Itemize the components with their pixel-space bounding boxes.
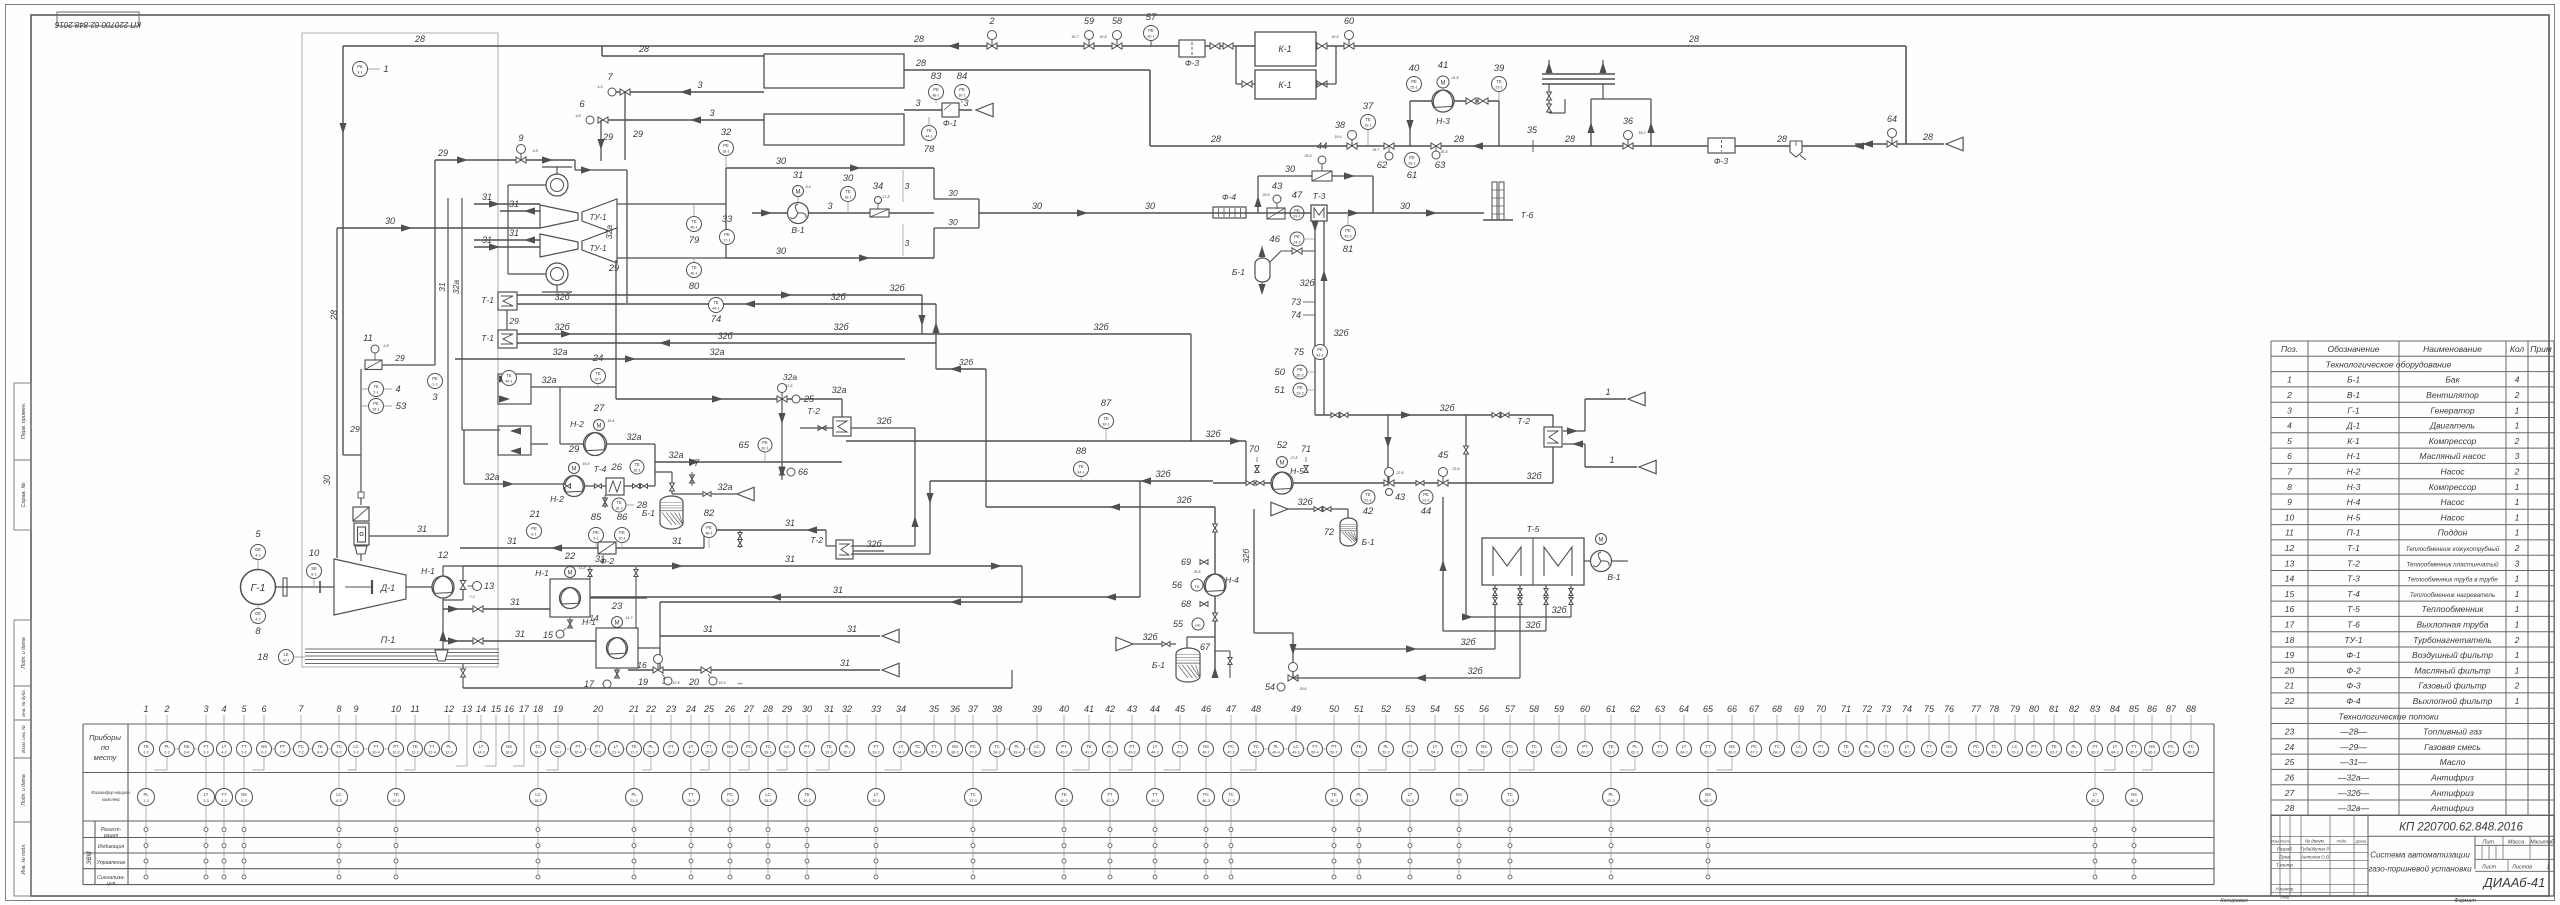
svg-text:4-2: 4-2 [221,751,227,755]
svg-text:5-3: 5-3 [241,799,247,803]
instrument 51 [1274,383,1315,397]
svg-text:73: 73 [1291,297,1301,307]
svg-text:28: 28 [414,34,425,44]
svg-text:35: 35 [929,704,940,714]
svg-text:NS: NS [1705,792,1711,797]
svg-text:70: 70 [1249,444,1259,454]
svg-text:10: 10 [391,704,401,714]
svg-text:73-2: 73-2 [1882,751,1890,755]
svg-text:31: 31 [703,624,713,634]
svg-text:24-2: 24-2 [1293,241,1301,245]
svg-text:25: 25 [803,394,815,404]
svg-text:54: 54 [1430,704,1440,714]
svg-text:29-8: 29-8 [1192,570,1200,574]
svg-text:19: 19 [638,677,648,687]
svg-text:25: 25 [2284,757,2295,767]
svg-text:72: 72 [1862,704,1872,714]
svg-text:Ф-1: Ф-1 [2346,650,2361,660]
svg-text:22: 22 [645,704,656,714]
svg-text:TC: TC [1531,744,1537,749]
gas filter F-3 second [1708,138,1735,166]
svg-text:1-2: 1-2 [143,751,149,755]
svg-text:16: 16 [2285,604,2295,614]
svg-text:45: 45 [1438,450,1449,461]
svg-text:78: 78 [924,144,935,155]
svg-text:Масло: Масло [2440,757,2466,767]
oil pump N-1 main [406,550,494,650]
svg-text:87: 87 [2166,704,2177,714]
svg-text:32а: 32а [541,375,556,385]
valve 60 [1331,16,1354,49]
svg-text:Т-2: Т-2 [1517,416,1530,426]
svg-text:74: 74 [711,314,722,325]
svg-text:84: 84 [2110,704,2120,714]
svg-text:PE: PE [1297,385,1303,390]
wire 32b long top [0,0,1,1]
svg-text:81-2: 81-2 [2050,751,2058,755]
svg-text:3: 3 [915,98,920,108]
svg-text:7-2: 7-2 [298,751,304,755]
svg-text:TC: TC [535,744,541,749]
svg-text:31: 31 [847,624,857,634]
wire 29 mixer line [435,148,627,365]
svg-text:LT: LT [222,744,227,749]
flag 1 lower [1563,440,1656,473]
svg-text:48-1: 48-1 [932,94,940,98]
svg-text:Утв.: Утв. [2280,894,2290,899]
svg-text:К-1: К-1 [1278,44,1291,54]
cooler box upper [498,374,616,404]
svg-text:17-8: 17-8 [882,195,889,199]
svg-text:30: 30 [802,704,812,714]
svg-text:Насос: Насос [2440,512,2465,522]
svg-text:Н-1: Н-1 [421,566,435,576]
svg-text:62-2: 62-2 [1631,751,1639,755]
svg-text:12-8: 12-8 [785,384,792,388]
svg-text:14: 14 [2285,574,2295,584]
svg-text:8: 8 [336,704,341,714]
svg-text:PT: PT [280,744,286,749]
exhaust filter F-4 [1213,192,1246,218]
svg-text:Ф-1: Ф-1 [943,118,958,128]
svg-text:газо-поршневой установки: газо-поршневой установки [2368,864,2472,873]
svg-text:TE: TE [317,744,323,749]
svg-text:Компрессор: Компрессор [2429,482,2477,492]
svg-text:7: 7 [607,72,613,83]
svg-text:1: 1 [2515,512,2520,522]
svg-text:LC: LC [765,792,770,797]
svg-text:56: 56 [1479,704,1489,714]
svg-text:TE: TE [1103,416,1109,421]
instrument 33 [720,214,735,245]
svg-text:FT: FT [203,744,209,749]
svg-text:TT: TT [931,744,937,749]
valve 36 [1623,116,1646,149]
svg-text:1: 1 [2515,620,2520,630]
svg-text:Ф-3: Ф-3 [2346,681,2361,691]
svg-text:Инв. № подл.: Инв. № подл. [21,843,27,874]
svg-text:TT: TT [706,744,712,749]
svg-text:FT: FT [373,744,379,749]
left margin box Perv primen [14,383,31,460]
svg-text:3: 3 [709,108,714,118]
valve 43b [1384,468,1405,503]
pan drain line [461,664,1012,689]
svg-text:КП 220700.62.848.2016: КП 220700.62.848.2016 [2399,821,2523,833]
svg-text:32б: 32б [1299,278,1315,288]
svg-text:19: 19 [553,704,563,714]
svg-text:1: 1 [1609,455,1614,465]
svg-text:FT: FT [1107,792,1113,797]
svg-text:NS: NS [2131,792,2137,797]
svg-text:TE: TE [1194,584,1199,589]
svg-text:32а: 32а [831,385,846,395]
svg-text:22-1: 22-1 [1364,499,1372,503]
svg-text:PE: PE [1345,228,1351,233]
svg-text:PE: PE [619,530,625,535]
svg-text:4-8: 4-8 [575,114,580,118]
svg-text:PL: PL [2071,744,2077,749]
svg-text:44-3: 44-3 [1151,799,1159,803]
wire 28 top main [343,34,1906,144]
strainer after F-4 [1267,208,1285,219]
svg-text:4: 4 [2515,375,2520,385]
svg-text:PC: PC [2168,744,2174,749]
svg-text:32а: 32а [451,280,461,294]
svg-text:ТУ-1: ТУ-1 [589,244,606,253]
left margin box Inv No dubl [14,686,31,720]
wire 28 left vertical [329,46,361,455]
instrument 86 [615,512,630,548]
K-1 piping and valves [1210,43,1336,87]
svg-text:87-2: 87-2 [2167,751,2175,755]
svg-text:PE: PE [762,440,768,445]
svg-text:37: 37 [1363,101,1374,112]
svg-text:18-3: 18-3 [534,799,542,803]
svg-text:TE: TE [826,744,832,749]
svg-text:22: 22 [564,551,576,562]
svg-text:Обозначение: Обозначение [2327,344,2379,354]
svg-text:53: 53 [396,401,407,412]
svg-text:Справ. №: Справ. № [21,482,27,507]
svg-text:Наименование: Наименование [2423,344,2482,354]
svg-text:30: 30 [385,216,395,226]
svg-text:PE: PE [959,87,965,92]
instrument 50 [1274,365,1315,379]
svg-text:43: 43 [1127,704,1137,714]
svg-text:69: 69 [1794,704,1804,714]
instrument 3 [428,374,443,404]
title block stamp [2271,815,2554,899]
svg-text:15: 15 [2285,589,2295,599]
svg-text:32б: 32б [959,357,974,367]
pump riser valves [588,530,742,628]
svg-text:Масса: Масса [2508,839,2524,845]
svg-text:LT: LT [899,744,904,749]
svg-text:43-2: 43-2 [1128,751,1136,755]
svg-text:86: 86 [2147,704,2157,714]
instrument 44b [1419,490,1433,517]
svg-text:65: 65 [738,440,749,451]
svg-text:51: 51 [1354,704,1364,714]
svg-text:2: 2 [2514,436,2520,446]
svg-text:15: 15 [543,630,554,640]
compressor K-1 upper [1255,32,1316,66]
instrument 18 [257,650,305,665]
svg-text:Поз.: Поз. [2281,344,2298,354]
svg-text:Масляный фильтр: Масляный фильтр [2414,665,2491,675]
svg-text:34: 34 [873,181,884,192]
svg-text:TE: TE [143,744,149,749]
svg-text:46-3: 46-3 [1202,799,1210,803]
svg-text:4: 4 [395,384,400,395]
svg-text:83-2: 83-2 [2091,751,2099,755]
svg-text:Т-1: Т-1 [481,333,494,343]
svg-text:52-2: 52-2 [1382,751,1390,755]
valve 20 [688,667,744,688]
svg-text:53: 53 [1405,704,1415,714]
wire 31 long middle [463,554,1022,636]
wire 29 risers [597,46,643,303]
svg-text:11: 11 [363,333,373,344]
heat exchanger T-1 first [481,292,517,310]
svg-text:24-3: 24-3 [687,799,695,803]
svg-text:Ф-4: Ф-4 [2346,696,2361,706]
gas buffer B-1 top [1232,246,1315,295]
svg-text:—29—: —29— [2339,742,2367,752]
heat exchanger T-2 second [810,535,884,559]
svg-text:PE: PE [373,401,379,406]
svg-text:51-2: 51-2 [1355,751,1363,755]
svg-text:34-2: 34-2 [897,751,905,755]
svg-text:59: 59 [1554,704,1564,714]
svg-text:61: 61 [1606,704,1616,714]
wire 32a top line [616,260,847,462]
svg-text:PE: PE [1148,28,1154,33]
instrument 21 [527,509,542,539]
svg-text:28: 28 [2284,803,2295,813]
svg-text:TC: TC [915,744,921,749]
svg-text:6: 6 [261,704,266,714]
svg-text:26-1: 26-1 [1408,162,1416,166]
svg-text:Антифриз: Антифриз [2430,803,2474,813]
svg-text:18-1: 18-1 [722,150,730,154]
svg-text:30: 30 [1145,201,1155,211]
svg-text:11-2: 11-2 [411,751,418,755]
condensate pot [1790,141,1806,160]
svg-text:PT: PT [1331,744,1337,749]
svg-text:48-1: 48-1 [705,532,713,536]
svg-text:PE: PE [1423,492,1429,497]
valve 59 [1071,16,1094,49]
svg-text:Поддон: Поддон [2438,528,2468,538]
heater T-4 [594,464,655,508]
svg-text:PE: PE [432,376,438,381]
svg-text:Ф-3: Ф-3 [1714,156,1729,166]
svg-text:28: 28 [1564,134,1575,144]
svg-text:66-2: 66-2 [1728,751,1736,755]
svg-text:28: 28 [329,310,339,321]
svg-text:комплекс: комплекс [102,797,121,802]
svg-text:SE: SE [311,566,317,571]
svg-text:12: 12 [444,704,454,714]
svg-text:79-2: 79-2 [2011,751,2019,755]
svg-text:—32а—: —32а— [2337,773,2370,783]
svg-text:1: 1 [2515,482,2520,492]
svg-text:Прим: Прим [2530,344,2552,354]
svg-text:Ф-2: Ф-2 [2346,665,2361,675]
svg-text:Теплообменник пластинчатый: Теплообменник пластинчатый [2406,561,2499,568]
instrument 4 [361,382,401,397]
svg-text:83: 83 [931,71,942,82]
svg-text:74: 74 [1902,704,1912,714]
svg-text:30-1: 30-1 [958,94,966,98]
svg-text:32а: 32а [604,225,614,239]
svg-text:PC: PC [1507,744,1513,749]
svg-text:13: 13 [2285,558,2295,568]
svg-text:50-2: 50-2 [1330,751,1338,755]
svg-text:49-4: 49-4 [1272,751,1280,755]
svg-text:4-3: 4-3 [221,799,227,803]
svg-text:72: 72 [1324,527,1334,537]
svg-text:42-2: 42-2 [1106,751,1114,755]
svg-text:28: 28 [1776,134,1787,144]
svg-text:33-3: 33-3 [872,799,880,803]
wire 30 to stack [1160,201,1484,217]
svg-text:4: 4 [221,704,226,714]
svg-text:Антифриз: Антифриз [2430,788,2474,798]
svg-text:5-8: 5-8 [532,149,537,153]
wire 31 return middle [590,481,1140,601]
svg-text:71: 71 [1301,444,1311,454]
svg-text:57-3: 57-3 [1506,799,1514,803]
svg-text:PL: PL [1383,744,1389,749]
svg-text:88: 88 [2186,704,2196,714]
svg-text:63: 63 [1435,160,1446,171]
package boundary [302,33,498,667]
svg-text:PE: PE [1294,208,1300,213]
svg-text:67: 67 [1200,642,1211,652]
svg-text:22: 22 [2284,696,2295,706]
wire 28 return line [1150,70,1864,152]
svg-text:TC: TC [1991,744,1997,749]
svg-text:TT: TT [1177,744,1183,749]
svg-text:82: 82 [704,508,715,519]
svg-text:17-1: 17-1 [723,239,731,243]
svg-text:16-1: 16-1 [633,469,641,473]
svg-text:27: 27 [2284,788,2295,798]
svg-text:48: 48 [1251,704,1261,714]
svg-text:20: 20 [688,677,699,687]
svg-text:28-1: 28-1 [372,408,380,412]
svg-text:21-3: 21-3 [630,799,638,803]
svg-text:81: 81 [2049,704,2059,714]
svg-text:LC: LC [353,744,358,749]
svg-text:50: 50 [1329,704,1339,714]
svg-text:PE: PE [1317,347,1323,352]
svg-text:FT: FT [575,744,581,749]
svg-text:3-3: 3-3 [203,799,209,803]
svg-text:M: M [572,467,577,473]
svg-text:TE: TE [691,265,697,270]
svg-text:PC: PC [970,744,976,749]
svg-text:29: 29 [508,316,519,326]
svg-text:Антонов О.В: Антонов О.В [2300,854,2329,859]
instrument strip table [83,724,2214,887]
svg-text:NS: NS [261,744,267,749]
svg-text:Т-2: Т-2 [2347,558,2360,568]
svg-text:49-2: 49-2 [1292,751,1300,755]
svg-text:LT: LT [1905,744,1910,749]
svg-text:26-8: 26-8 [1439,150,1447,154]
svg-text:П-1: П-1 [2347,528,2361,538]
svg-text:34-1: 34-1 [1077,471,1085,475]
oil filter F-2 [598,542,616,566]
air line 3 upper [612,80,764,96]
svg-text:13: 13 [462,704,472,714]
svg-text:55: 55 [1454,704,1465,714]
svg-text:32а: 32а [484,472,499,482]
svg-text:PT: PT [1582,744,1588,749]
svg-text:74: 74 [1291,310,1301,320]
damper 34 [870,181,934,217]
svg-text:31: 31 [482,192,492,202]
compressor N-3 group [1406,90,1499,146]
instrument 24 [591,353,798,387]
svg-text:31: 31 [437,282,447,292]
svg-text:LC: LC [1034,744,1039,749]
svg-text:74-2: 74-2 [1903,751,1911,755]
svg-text:Б-1: Б-1 [2347,375,2360,385]
svg-text:6: 6 [2287,451,2292,461]
svg-text:11: 11 [410,704,419,714]
svg-text:Ф-3: Ф-3 [1185,58,1200,68]
svg-text:53-2: 53-2 [1406,751,1414,755]
svg-text:34: 34 [896,704,906,714]
svg-text:46: 46 [1201,704,1211,714]
svg-text:32б: 32б [1142,632,1158,642]
svg-text:Приборы: Приборы [89,733,121,742]
svg-text:Т-4: Т-4 [2347,589,2360,599]
svg-text:PL: PL [1356,792,1362,797]
svg-text:56-2: 56-2 [1480,751,1488,755]
svg-text:6-8: 6-8 [383,344,388,348]
svg-text:по: по [101,743,109,752]
svg-text:Фазоинфор-мацион.: Фазоинфор-мацион. [91,790,131,795]
svg-text:78: 78 [1989,704,1999,714]
svg-text:Турбонагнетатель: Турбонагнетатель [2413,635,2492,645]
svg-text:PC: PC [1751,744,1757,749]
svg-text:5: 5 [255,529,261,540]
svg-text:26: 26 [724,704,735,714]
svg-text:32а: 32а [783,372,797,382]
svg-text:1-3: 1-3 [143,799,149,803]
svg-text:Листов: Листов [2511,864,2532,870]
svg-text:40: 40 [1409,63,1420,74]
valve 38 [1334,120,1357,149]
svg-text:57-2: 57-2 [1506,751,1514,755]
svg-text:30: 30 [1400,201,1410,211]
svg-text:12-4: 12-4 [428,751,436,755]
pump N-2 upper [560,387,655,486]
svg-text:Теплообменник: Теплообменник [2422,604,2485,614]
svg-text:1: 1 [2515,589,2520,599]
svg-text:32б: 32б [1439,403,1455,413]
svg-text:LT: LT [479,744,484,749]
svg-text:36-2: 36-2 [951,751,959,755]
svg-text:54: 54 [1265,682,1275,692]
instrument 82 [702,508,717,548]
